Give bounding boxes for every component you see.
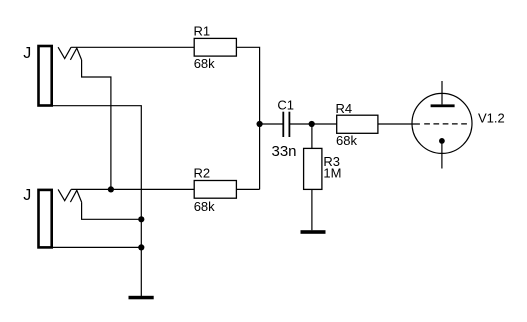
svg-text:R1: R1 xyxy=(194,23,211,38)
wire R3 to ground xyxy=(311,189,313,230)
wire J1 switch down-right-down to node A xyxy=(82,60,111,190)
svg-text:J: J xyxy=(23,45,31,62)
triode cathode dot xyxy=(439,138,445,144)
junction J2 switch on ground rail xyxy=(138,216,144,222)
wire J2 switch to ground rail xyxy=(82,202,142,219)
triode anode lead xyxy=(441,81,443,104)
wire R1 to node B xyxy=(236,47,259,189)
jack J2 switch contact xyxy=(70,190,81,202)
wire J2 tip to R2 (node A) xyxy=(71,188,194,190)
capacitor C1 xyxy=(283,112,289,137)
triode cathode lead xyxy=(441,143,443,168)
triode U1 envelope xyxy=(412,93,472,153)
wire R2 to vertical node B line xyxy=(236,188,259,190)
triode anode plate xyxy=(431,104,455,107)
svg-text:R2: R2 xyxy=(194,166,211,181)
junction node C (C1/R3/R4) xyxy=(309,121,315,127)
wire node C down to R3 xyxy=(311,124,313,148)
svg-text:33n: 33n xyxy=(272,143,297,160)
junction node B (R1/R2/C1) xyxy=(257,121,263,127)
jack J2 body xyxy=(39,190,52,248)
svg-text:J: J xyxy=(23,187,31,204)
wire node B to C1 xyxy=(260,123,283,125)
wire J2 sleeve to ground rail xyxy=(52,246,141,248)
jack J1 switch contact xyxy=(70,48,81,60)
jack J2 tip contact xyxy=(58,189,71,200)
resistor R1 xyxy=(194,38,236,56)
wire J1 tip to R1 xyxy=(71,46,194,48)
svg-text:68k: 68k xyxy=(336,133,357,148)
svg-text:C1: C1 xyxy=(277,97,294,112)
svg-text:V1.2: V1.2 xyxy=(478,110,505,125)
svg-text:1M: 1M xyxy=(323,165,341,180)
svg-text:68k: 68k xyxy=(194,199,215,214)
ground (R3) xyxy=(301,230,326,234)
resistor R4 xyxy=(337,115,378,133)
triode grid (dashed) xyxy=(424,123,469,125)
resistor R2 xyxy=(194,181,236,199)
wire R4 to tube grid xyxy=(378,123,420,125)
junction J2 sleeve on ground rail xyxy=(138,244,144,250)
wire J1 sleeve to ground rail xyxy=(52,106,141,296)
ground (input jacks) xyxy=(129,296,154,300)
resistor R3 xyxy=(304,148,322,189)
jack J1 body xyxy=(39,46,52,106)
jack J1 tip contact xyxy=(58,47,71,58)
svg-text:68k: 68k xyxy=(194,56,215,71)
junction node A (J1 switch / J2 tip) xyxy=(108,186,114,192)
svg-text:R4: R4 xyxy=(336,101,353,116)
wire C1 to node C / R4 xyxy=(290,123,337,125)
